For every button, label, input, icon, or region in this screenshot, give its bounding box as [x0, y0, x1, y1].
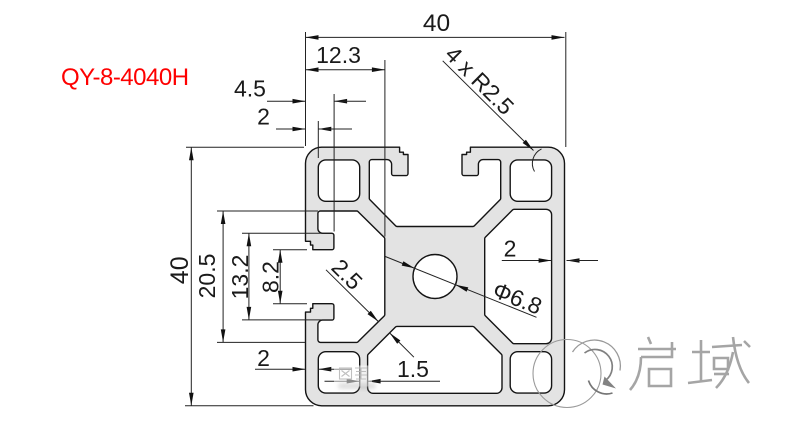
svg-text:1.5: 1.5: [397, 356, 429, 382]
svg-text:40: 40: [423, 10, 450, 37]
svg-text:2: 2: [504, 236, 517, 262]
svg-text:12.3: 12.3: [316, 42, 361, 68]
svg-text:4.5: 4.5: [234, 76, 266, 102]
svg-text:QY-8-4040H: QY-8-4040H: [61, 64, 189, 91]
svg-text:2: 2: [257, 345, 270, 371]
svg-text:2: 2: [257, 104, 270, 130]
svg-text:20.5: 20.5: [194, 254, 220, 299]
svg-text:13.2: 13.2: [227, 255, 253, 300]
svg-text:8.2: 8.2: [258, 261, 284, 293]
svg-text:40: 40: [166, 256, 194, 284]
